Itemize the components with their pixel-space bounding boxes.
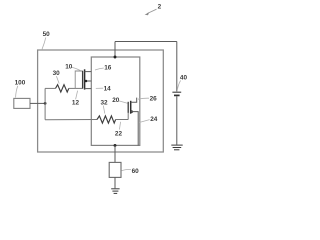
wire resistor 32 to gate of 20 xyxy=(116,119,129,121)
leader 20 xyxy=(119,101,128,103)
supply wire vertical into inner box xyxy=(114,42,116,58)
svg-text:10: 10 xyxy=(65,64,73,71)
leader 30 xyxy=(56,76,59,83)
leader 12 xyxy=(76,91,78,100)
leader 22 xyxy=(119,122,120,130)
svg-text:16: 16 xyxy=(104,65,112,72)
svg-text:30: 30 xyxy=(53,70,61,77)
leader 50 xyxy=(42,38,46,50)
leader 32 xyxy=(103,106,105,114)
leader 100 xyxy=(16,86,18,98)
transistor 20 gate bar xyxy=(127,102,129,113)
load box 60 xyxy=(109,162,121,177)
resistor 30 xyxy=(56,85,69,92)
supply wire top horizontal xyxy=(115,41,177,43)
junction node on input xyxy=(44,102,47,105)
transistor 10 source stub (14) xyxy=(85,88,92,90)
transistor 20 source stub (24) xyxy=(131,112,139,146)
transistor 20 channel bar xyxy=(130,101,132,114)
resistor 32 xyxy=(97,116,116,123)
transistor 10 drain stub (16) xyxy=(85,71,92,73)
leader 10 xyxy=(72,67,81,70)
leader 16 xyxy=(95,68,104,70)
transistor 20 gate wire xyxy=(127,113,129,120)
leader 60 xyxy=(122,169,131,170)
transistor 20 bulk dot xyxy=(131,110,134,113)
svg-text:20: 20 xyxy=(112,97,120,104)
ground right xyxy=(171,144,182,146)
wire left vertical branch xyxy=(44,88,46,119)
transistor 20 drain stub (26) xyxy=(131,98,137,103)
junction dot top of inner box xyxy=(114,56,117,59)
transistor 10 gate loop xyxy=(75,71,82,88)
transistor 10 bulk dot xyxy=(85,80,88,83)
svg-text:14: 14 xyxy=(104,86,112,93)
leader 26 xyxy=(138,98,149,99)
leader 14 xyxy=(96,87,103,89)
inner box xyxy=(91,57,140,145)
arrow to 2 xyxy=(147,9,157,13)
ground bottom xyxy=(111,188,119,190)
wire from box 100 to node xyxy=(30,102,45,104)
output wire down xyxy=(114,145,116,162)
svg-text:24: 24 xyxy=(150,116,158,123)
outer box 50 xyxy=(38,50,164,152)
svg-text:50: 50 xyxy=(43,31,51,38)
wire lower gate path xyxy=(45,119,97,121)
svg-text:100: 100 xyxy=(15,80,26,87)
leader 40 xyxy=(177,80,180,89)
wire upper gate path xyxy=(45,87,55,89)
svg-text:26: 26 xyxy=(150,96,158,103)
battery lower wire xyxy=(176,96,178,144)
wire box 60 to ground xyxy=(114,177,116,188)
battery 40 short plate xyxy=(174,94,180,96)
svg-text:32: 32 xyxy=(101,100,109,107)
svg-text:60: 60 xyxy=(132,168,140,175)
battery 40 long plate xyxy=(172,91,181,93)
transistor 10 bulk stub xyxy=(85,80,92,82)
control box 100 xyxy=(14,98,30,108)
svg-text:22: 22 xyxy=(115,131,123,138)
wire resistor 30 to gate of 10 xyxy=(69,87,83,89)
leader 24 xyxy=(140,120,150,123)
transistor 10 gate bar xyxy=(82,71,84,89)
svg-text:2: 2 xyxy=(158,4,162,11)
supply wire right vertical upper xyxy=(176,42,178,92)
svg-text:12: 12 xyxy=(72,100,80,107)
junction dot bottom of inner box xyxy=(114,144,117,147)
transistor 10 channel bar xyxy=(84,69,86,89)
svg-text:40: 40 xyxy=(180,74,188,81)
